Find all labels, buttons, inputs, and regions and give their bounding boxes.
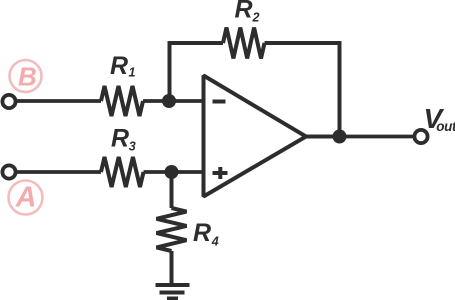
svg-text:2: 2 — [252, 11, 260, 25]
op-amp inverting input marker (minus) — [213, 100, 226, 104]
op-amp non-inverting input marker (plus) — [213, 167, 228, 179]
ground — [156, 285, 190, 299]
label R2 — [235, 0, 260, 25]
label R3 — [111, 125, 136, 154]
wire: terminal A to R3 — [16, 170, 102, 174]
terminal B — [2, 95, 15, 108]
resistor R4 — [157, 208, 187, 251]
resistor R1 — [101, 86, 143, 116]
label R4 — [193, 219, 219, 249]
svg-text:A: A — [15, 182, 37, 214]
resistor R2 — [223, 28, 265, 59]
svg-text:3: 3 — [129, 140, 136, 154]
wire: output node to terminal Vout — [340, 135, 415, 139]
svg-text:4: 4 — [211, 235, 219, 249]
label B (pink circled letter) — [10, 60, 42, 92]
terminal A — [2, 165, 15, 178]
svg-text:R: R — [235, 0, 253, 24]
wire: feedback top rail right and down to output node — [265, 43, 340, 137]
wire: node down to R4 — [170, 172, 174, 208]
node: output junction — [333, 130, 347, 144]
terminal Vout — [414, 130, 427, 143]
svg-text:R: R — [193, 219, 211, 247]
wire: R4 to ground — [170, 251, 174, 285]
label R1 — [110, 52, 136, 80]
svg-text:1: 1 — [129, 66, 136, 80]
wire: terminal B to R1 — [16, 99, 102, 103]
svg-text:R: R — [110, 52, 128, 80]
wire: op-amp output to node — [306, 135, 340, 139]
wire: R3 to op-amp non-inverting input — [144, 170, 204, 174]
svg-text:out: out — [436, 119, 455, 134]
wire: R1 to op-amp inverting input — [143, 99, 204, 103]
label A (pink circled letter) — [9, 181, 43, 215]
label Vout — [424, 103, 455, 134]
node: non-inverting input junction — [165, 165, 179, 179]
wire: feedback left vertical (node to top rail) — [170, 43, 224, 101]
svg-text:R: R — [111, 125, 129, 153]
svg-text:B: B — [18, 62, 37, 92]
node: inverting input junction — [162, 94, 176, 108]
op-amp U1 — [204, 76, 307, 197]
resistor R3 — [101, 157, 144, 187]
